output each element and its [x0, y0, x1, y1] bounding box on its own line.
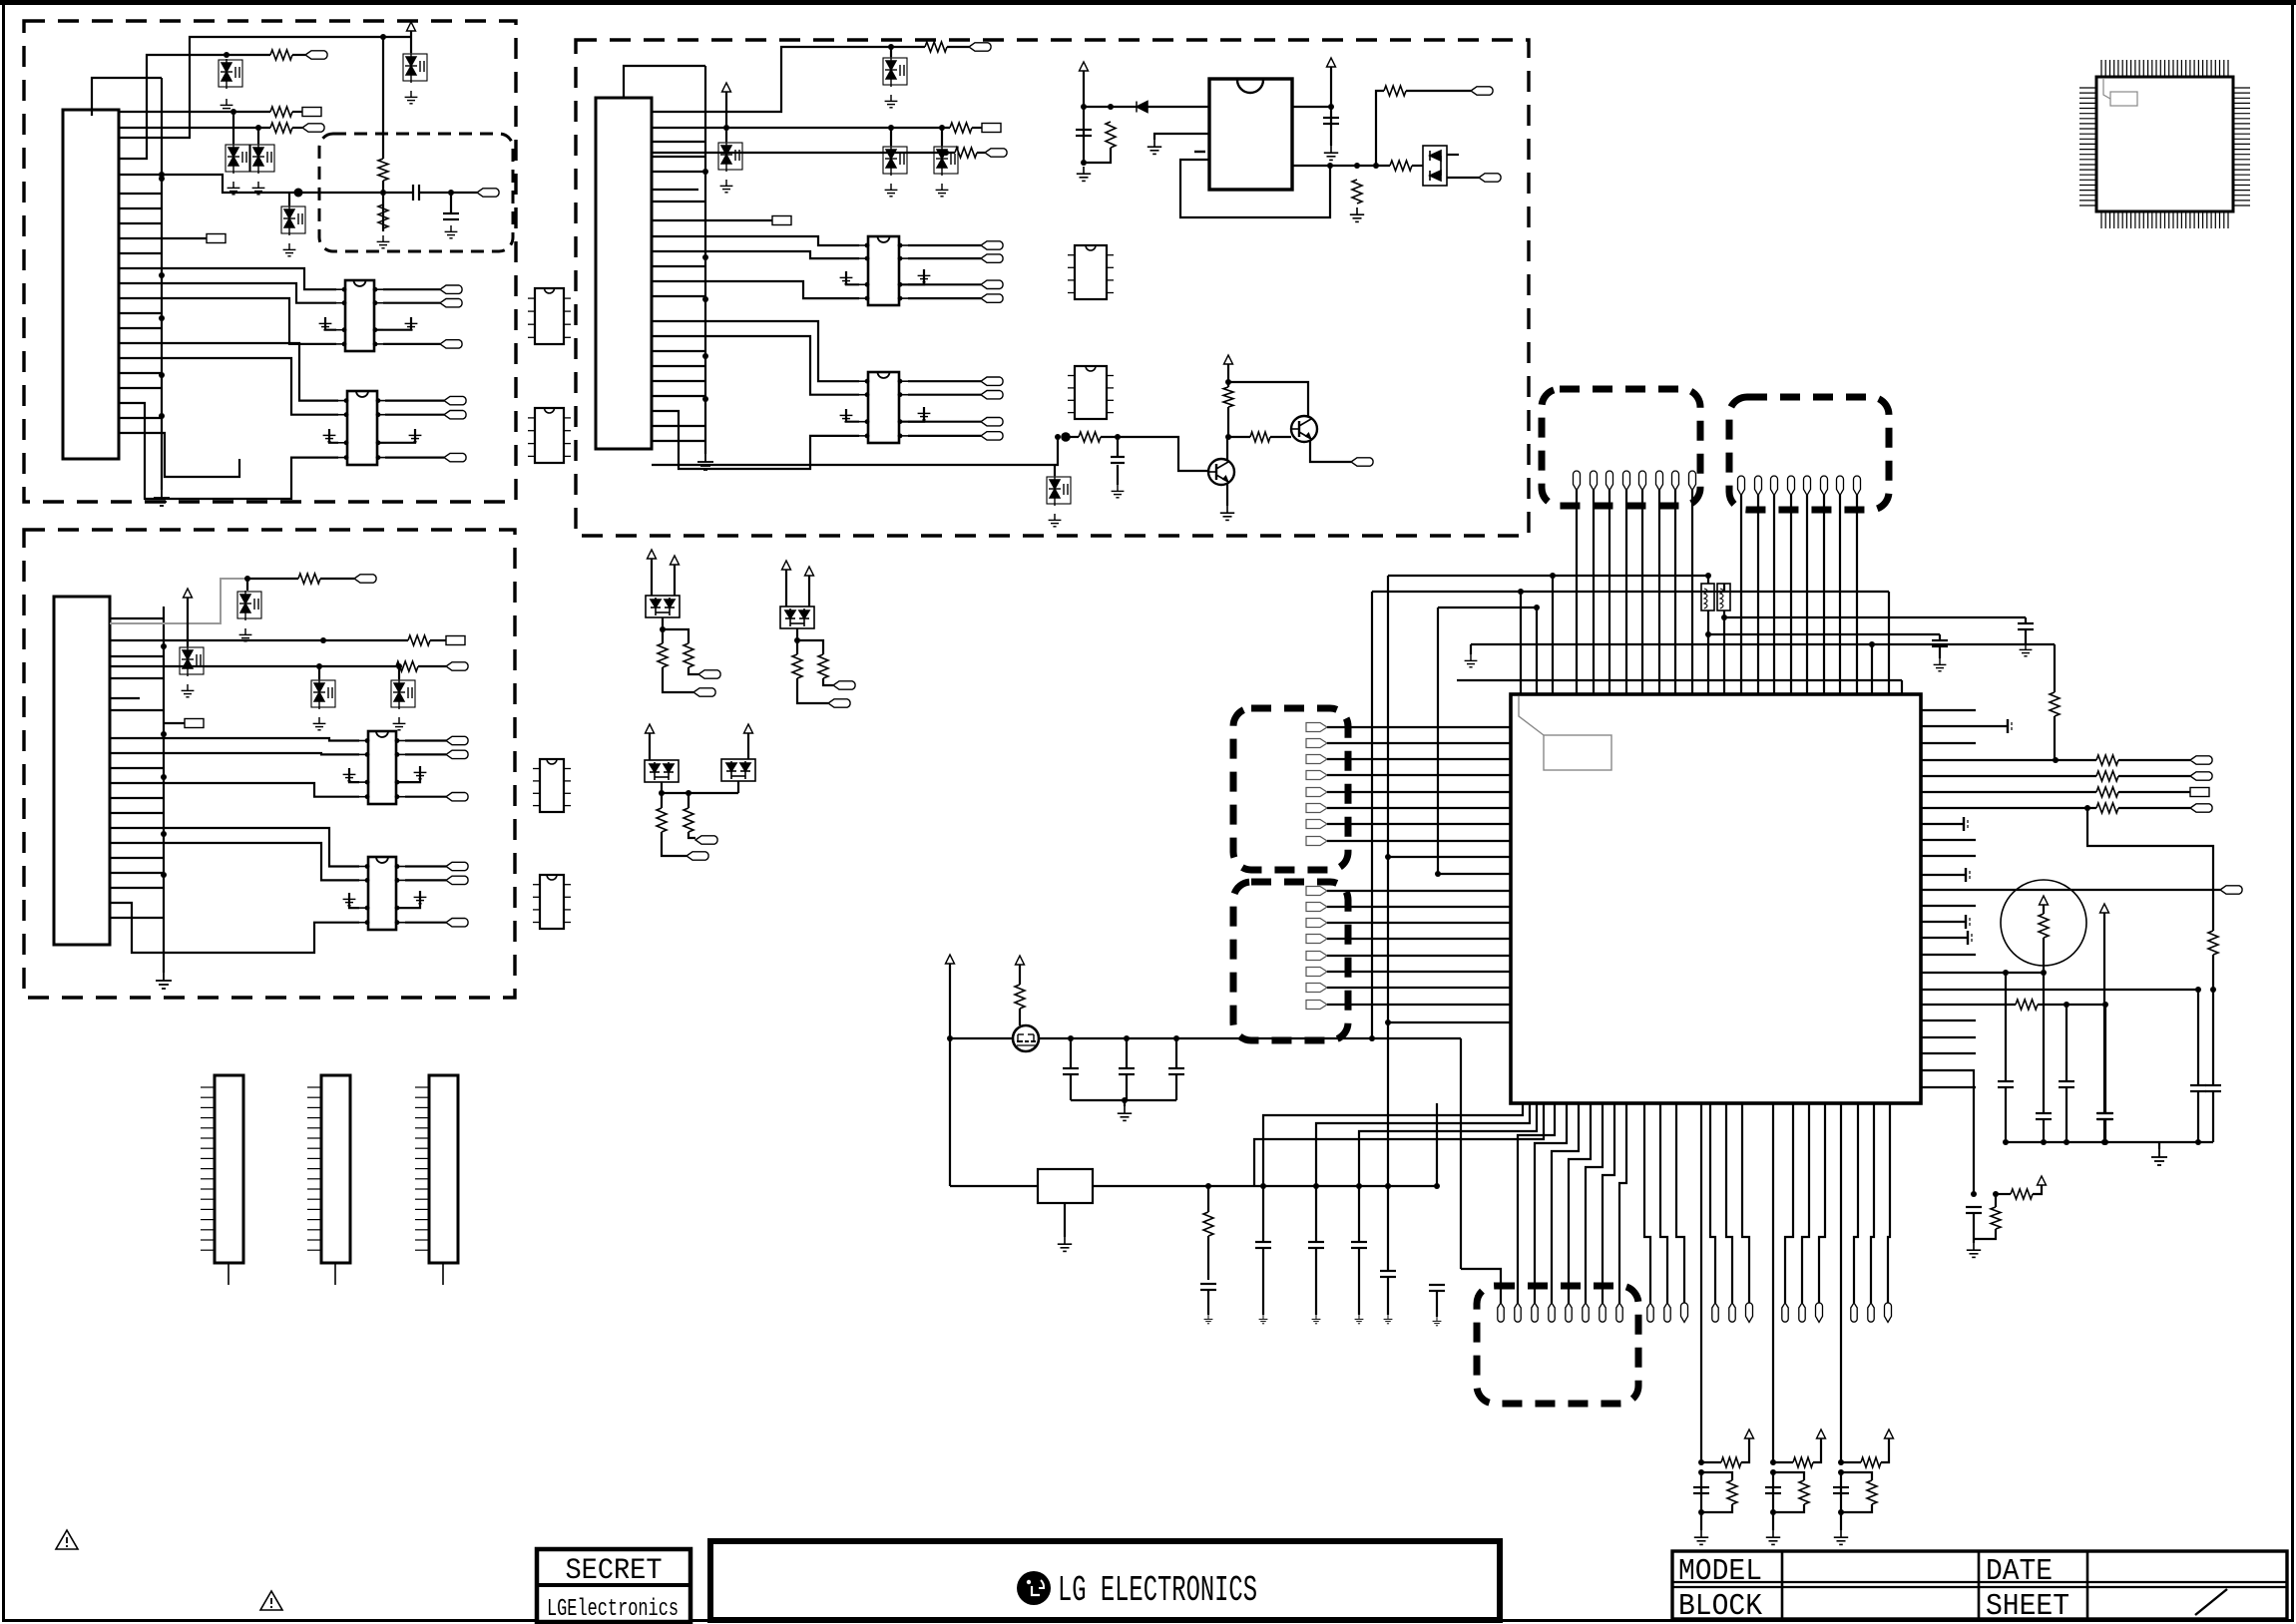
zener diode pair D11: [718, 142, 742, 172]
terminal T52: [1306, 903, 1327, 912]
ground GND6: [405, 91, 418, 104]
wire W116: [652, 411, 859, 469]
junction J91: [1205, 1183, 1211, 1189]
wire W210: [1388, 575, 1708, 577]
wire W345: [949, 964, 951, 1186]
op-amp/IC U-C1 (8-pin DIP): [859, 236, 908, 305]
capacitor C19: [1063, 1068, 1079, 1074]
wire W316: [1785, 1103, 1793, 1303]
wire W125: [652, 171, 705, 173]
wire W54: [430, 639, 446, 641]
wire W193: [1674, 490, 1676, 694]
wire W185: [688, 793, 689, 808]
wire W330: [1773, 1461, 1793, 1463]
title block: SECRET / LGElectronics: [537, 1549, 690, 1622]
ground GND21: [414, 891, 427, 904]
wire W314: [1726, 1103, 1732, 1303]
ground GND19: [414, 766, 427, 779]
IC U-V4 (small DIP): [533, 875, 571, 929]
wire W249: [1921, 709, 1976, 711]
wire W296: [2158, 1142, 2160, 1149]
wire W120: [908, 394, 981, 396]
junction J57: [1869, 641, 1875, 647]
wire W10: [292, 127, 302, 129]
wire W163: [1310, 440, 1351, 462]
ground GND18: [343, 768, 356, 781]
wire W36: [385, 414, 444, 416]
junction J23: [702, 169, 708, 175]
warning triangle W2: [260, 1591, 282, 1610]
wire W49: [247, 578, 298, 580]
wire W123: [652, 141, 705, 143]
wire W97: [651, 152, 955, 154]
ground GND44: [1766, 1530, 1780, 1544]
resistor R10: [950, 123, 972, 133]
ground GND17: [393, 717, 406, 730]
dashed connector group A-inner: [319, 134, 513, 251]
terminal T33: [981, 432, 1003, 440]
ground GND48: [1204, 1315, 1213, 1324]
junction J64: [2041, 970, 2047, 976]
ground GND30: [918, 407, 931, 420]
connector pin P18: [1515, 1303, 1521, 1322]
resistor R24: [684, 808, 693, 832]
resistor R14: [1384, 86, 1406, 96]
terminal T40: [833, 681, 855, 689]
wire W214: [1724, 616, 2026, 618]
connector P1: [215, 1075, 243, 1263]
wire W60: [164, 722, 185, 724]
ground GND3: [228, 182, 240, 195]
connector P3 pins: [415, 1087, 429, 1250]
wire W155: [1054, 465, 1056, 476]
ground GND31: [1077, 167, 1091, 181]
resistor R25: [2050, 692, 2060, 716]
wire W63: [110, 783, 359, 797]
wire W100: [941, 128, 943, 146]
ferrite bead FB2: [1717, 584, 1730, 610]
junction J47: [659, 790, 665, 796]
wire W274: [2212, 990, 2214, 1085]
junction J30: [888, 125, 894, 131]
wire W168: [663, 667, 693, 692]
wire W79: [110, 677, 164, 679]
junction J10: [159, 172, 165, 178]
zener diode pair D7: [180, 646, 204, 676]
wire W281: [1921, 972, 2044, 974]
wire W8: [292, 111, 302, 113]
title block: MODEL/BLOCK/DATE/SHEET table: [1672, 1551, 2287, 1619]
wire W156: [1226, 483, 1228, 506]
wire W47: [163, 607, 165, 973]
wire W38: [119, 193, 162, 195]
wire W92: [947, 46, 969, 48]
capacitor C16: [1693, 1487, 1709, 1493]
ground GND38: [2020, 643, 2033, 656]
zener diode pair D12: [883, 146, 907, 176]
capacitor C22: [1200, 1284, 1216, 1290]
nc capacitor NC2: [1964, 817, 1968, 831]
ground GND13: [156, 973, 172, 989]
wire W5: [382, 37, 384, 159]
wire W34: [377, 429, 415, 443]
capacitor C8: [2205, 1085, 2221, 1091]
junction J39: [1373, 163, 1379, 169]
wire W20: [450, 193, 452, 213]
wire W190: [1625, 490, 1627, 694]
wire W329: [1700, 1472, 1702, 1530]
junction J83: [1838, 1459, 1844, 1465]
wire W184: [662, 832, 687, 856]
wire W293: [2104, 1005, 2106, 1113]
svg-text:BLOCK: BLOCK: [1678, 1589, 1762, 1624]
wire W239: [1327, 906, 1511, 908]
wire W245: [1327, 1004, 1511, 1006]
wire W357: [1460, 1038, 1462, 1269]
wire W69: [110, 828, 359, 867]
wire W80: [110, 709, 164, 711]
wire W29: [119, 343, 338, 401]
wire W75: [405, 879, 446, 881]
terminal T63: [2220, 886, 2242, 894]
wire W359: [950, 1185, 1437, 1187]
wire W244: [1327, 987, 1511, 989]
junction J28: [888, 44, 894, 50]
terminal T50: [1306, 837, 1327, 846]
wire W111: [908, 257, 981, 259]
wire W286: [1921, 989, 2198, 991]
crystal/oscillator block Y1: [1038, 1169, 1093, 1203]
wire W200: [1823, 495, 1825, 694]
junction J78: [1698, 1469, 1704, 1475]
junction J72: [2101, 1139, 2107, 1145]
junction J14: [161, 643, 167, 649]
wire W7: [119, 111, 270, 113]
junction J13: [448, 190, 454, 196]
wire W112: [908, 283, 981, 285]
wire W312: [1676, 1103, 1684, 1303]
wire W236: [1327, 823, 1511, 825]
junction J50: [1518, 589, 1524, 595]
resistor R18: [1250, 432, 1270, 442]
wire W150: [1447, 154, 1459, 156]
wire W353: [1175, 1038, 1177, 1068]
terminal T38: [698, 670, 720, 678]
junction J1: [159, 176, 165, 182]
terminal T14: [446, 662, 468, 670]
ground GND10: [405, 317, 418, 330]
resistor R38: [1799, 1480, 1809, 1504]
voltage regulator U-REG: [1209, 79, 1292, 190]
wire W315: [1742, 1103, 1749, 1303]
wire W98: [977, 152, 985, 154]
wire W298: [1973, 1213, 1975, 1243]
resistor R16: [1079, 432, 1101, 442]
wire W6: [292, 54, 305, 56]
wire W273: [2212, 955, 2214, 990]
wire W4: [119, 37, 411, 138]
ground GND49: [1259, 1315, 1268, 1324]
junction J82: [1770, 1509, 1776, 1515]
wire W263: [1921, 937, 1968, 939]
terminal T12: [354, 575, 376, 583]
wire W70: [110, 843, 359, 880]
wire W207: [1707, 610, 1709, 694]
terminal T19: [446, 862, 468, 870]
wire W117: [846, 409, 859, 422]
wire W48: [110, 579, 247, 623]
terminal T16: [446, 736, 468, 744]
wire W25: [374, 317, 411, 330]
junction J48: [686, 790, 691, 796]
warning triangle W1: [56, 1530, 78, 1549]
wire W122: [908, 435, 981, 437]
wire W307: [1586, 1103, 1603, 1303]
wire W300: [1974, 1229, 1996, 1239]
capacitor C10: [1998, 1081, 2014, 1087]
wire W294: [2104, 1119, 2106, 1142]
terminal T36: [1351, 458, 1373, 466]
power arrow VCC11: [646, 724, 655, 733]
junction J32: [939, 125, 945, 131]
capacitor C7: [1932, 640, 1948, 646]
wire W202: [1856, 495, 1858, 694]
wire W138: [1084, 148, 1111, 163]
wire W346: [950, 1037, 1461, 1039]
capacitor C24: [1308, 1242, 1324, 1248]
wire W240: [1327, 922, 1511, 924]
wire W199: [1806, 495, 1808, 694]
wire W151: [1066, 436, 1079, 438]
capacitor C21: [1168, 1068, 1184, 1074]
wire W181: [737, 781, 739, 793]
wire W45: [119, 387, 162, 389]
wire W90: [651, 47, 891, 112]
wire W107: [652, 281, 859, 298]
wire W140: [1194, 151, 1205, 153]
connector pin P24: [1616, 1303, 1622, 1322]
resistor R31: [2039, 914, 2049, 938]
wire W146: [1376, 91, 1384, 166]
wire W220: [1471, 643, 2055, 645]
wire W102: [705, 219, 772, 221]
wire W362: [1207, 1236, 1209, 1280]
junction J3: [159, 315, 165, 321]
connector pin P30: [1746, 1303, 1753, 1322]
wire W371: [1387, 1277, 1389, 1315]
wire W360: [1064, 1203, 1066, 1237]
junction J92: [1260, 1183, 1266, 1189]
terminal T42: [695, 836, 717, 844]
power arrow VCC20: [1016, 956, 1025, 965]
wire W12: [257, 128, 259, 144]
wire W27: [383, 302, 440, 304]
resistor R15: [1390, 161, 1412, 171]
wire W287: [2197, 990, 2199, 1085]
wire W44: [119, 372, 162, 374]
capacitor C4: [1323, 118, 1339, 124]
connector pin P21: [1566, 1303, 1572, 1322]
wire W261: [1921, 874, 1966, 876]
connector pin P23: [1600, 1303, 1606, 1322]
junction J22: [396, 663, 402, 669]
junction J65: [2003, 970, 2009, 976]
wire W74: [405, 865, 446, 867]
LG logo: [1017, 1571, 1051, 1605]
wire W2: [92, 78, 162, 116]
junction J96: [1434, 1183, 1440, 1189]
connector pin P31: [1782, 1303, 1788, 1322]
ground GND15: [182, 684, 195, 697]
junction J24: [702, 254, 708, 260]
wire W131: [652, 380, 705, 382]
terminal T62: [2190, 804, 2212, 812]
wire W258: [1921, 1086, 1976, 1088]
wire W262: [1921, 921, 1966, 923]
wire W76: [405, 922, 446, 924]
wire W282: [2005, 973, 2007, 1081]
ground GND27: [840, 271, 853, 284]
wire W221: [1470, 644, 1472, 654]
dashed connector group D3: [1233, 708, 1348, 870]
junction J21: [316, 663, 322, 669]
wire W171: [785, 570, 787, 610]
connector pin P25: [1647, 1303, 1653, 1322]
wire W303: [1518, 1103, 1555, 1303]
connector pin P26: [1664, 1303, 1670, 1322]
wire W227: [1871, 644, 1873, 694]
wire W106: [652, 251, 859, 258]
wire W370: [1387, 1186, 1389, 1271]
junction J19: [244, 576, 250, 582]
wire W231: [1327, 742, 1511, 744]
wire W271: [2118, 807, 2190, 809]
terminal T8: [440, 340, 462, 348]
terminal T43: [1306, 723, 1327, 732]
capacitor C2: [443, 213, 459, 219]
wire W324: [1840, 1103, 1842, 1462]
wire W14: [288, 193, 290, 205]
wire W86: [110, 887, 164, 889]
resistor R41: [1015, 985, 1025, 1009]
wire W253: [1921, 905, 1976, 907]
junction J34: [1108, 104, 1114, 110]
junction J95: [1385, 1183, 1391, 1189]
ground GND7: [377, 235, 390, 248]
wire W162: [1228, 382, 1308, 416]
junction J12: [380, 190, 386, 196]
wire W99: [890, 128, 892, 146]
junction J85: [1838, 1509, 1844, 1515]
wire W174: [796, 640, 798, 654]
capacitor C25: [1351, 1242, 1367, 1248]
wire W55: [110, 665, 396, 667]
wire W256: [1921, 1036, 1976, 1038]
wire W356: [1124, 1100, 1126, 1106]
terminal T39: [828, 699, 850, 707]
resistor R8: [396, 661, 418, 671]
wire W327: [1701, 1472, 1732, 1480]
nc capacitor NC5: [1968, 931, 1972, 945]
wire W172: [808, 576, 810, 610]
wire W272: [2087, 808, 2213, 931]
wire W343: [1254, 1103, 1544, 1186]
wire W238: [1327, 890, 1511, 892]
wire W241: [1327, 938, 1511, 940]
connector pin P15: [1837, 476, 1844, 495]
power arrow VCC4: [1080, 62, 1089, 71]
ground GND45: [1834, 1530, 1848, 1544]
connector pin P16: [1854, 476, 1861, 495]
IC U-V1 (small DIP): [528, 288, 571, 344]
capacitor C3: [1076, 130, 1092, 136]
wire W31: [119, 403, 338, 499]
resistor R4: [378, 159, 388, 181]
terminal T27: [981, 254, 1003, 262]
dual diode module D20: [721, 759, 755, 781]
power arrow VCC14: [2100, 904, 2109, 913]
resistor R27: [2096, 771, 2118, 781]
wire W101: [652, 219, 705, 221]
wire W375: [442, 1263, 444, 1285]
wire W319: [1854, 1103, 1858, 1303]
wire W268: [1921, 791, 2096, 793]
terminal T44: [1306, 739, 1327, 748]
junction J20: [320, 637, 326, 643]
zener diode pair D9: [391, 679, 415, 709]
connector pin P28: [1712, 1303, 1718, 1322]
wire W201: [1839, 495, 1841, 694]
junction J59: [1435, 871, 1441, 877]
wire W126: [652, 201, 705, 203]
terminal T10: [444, 411, 466, 419]
wire W158: [1227, 364, 1229, 387]
terminal T13: [446, 636, 465, 645]
terminal T61: [2190, 788, 2209, 797]
junction J5: [159, 413, 165, 419]
junction J2: [159, 272, 165, 278]
power arrow VCC18: [1885, 1429, 1894, 1438]
ground GND20: [343, 893, 356, 906]
wire W242: [1327, 955, 1511, 957]
wire W277: [2043, 905, 2045, 914]
resistor R11: [955, 148, 977, 158]
wire W350: [1070, 1074, 1072, 1100]
ground GND43: [1694, 1530, 1708, 1544]
svg-text:SHEET: SHEET: [1986, 1589, 2069, 1624]
wire W331: [1813, 1438, 1821, 1462]
wire W259: [1921, 725, 2008, 727]
ground GND36: [1049, 514, 1062, 527]
wire W264: [1921, 759, 2096, 761]
terminal T54: [1306, 935, 1327, 944]
ground GND51: [1355, 1315, 1364, 1324]
terminal T37: [693, 688, 715, 696]
wire W270: [1921, 807, 2096, 809]
terminal T4: [207, 234, 226, 243]
terminal T2: [302, 108, 321, 117]
connector pin P9: [1738, 476, 1745, 495]
ground GND53: [1433, 1317, 1442, 1326]
wire W16: [410, 31, 412, 53]
ground GND37: [1220, 506, 1234, 520]
wire W246: [1388, 856, 1511, 858]
wire W139: [1154, 134, 1209, 140]
wire W88: [624, 66, 705, 98]
wire W149: [1447, 177, 1479, 179]
connector pin P33: [1816, 1303, 1823, 1322]
junction J40: [1055, 434, 1061, 440]
